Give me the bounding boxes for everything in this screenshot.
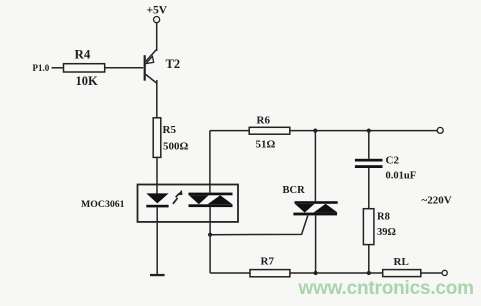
label R6 xyxy=(257,115,271,127)
value 500ohm xyxy=(163,141,189,153)
wire LED cathode to ground xyxy=(156,207,158,274)
svg-text:R4: R4 xyxy=(75,47,91,62)
value 0.01uF xyxy=(386,171,417,182)
top rail wire xyxy=(210,130,249,132)
node +5V terminal xyxy=(154,17,160,23)
svg-text:BCR: BCR xyxy=(283,185,306,196)
svg-text:500Ω: 500Ω xyxy=(163,141,189,153)
node G junction xyxy=(208,233,212,237)
junction top rail BCR xyxy=(313,129,317,133)
LED D1 xyxy=(146,193,168,207)
bottom rail wire left xyxy=(210,272,250,274)
junction top rail C2 xyxy=(367,129,371,133)
bottom rail wire right xyxy=(421,272,442,274)
svg-text:~220V: ~220V xyxy=(422,195,452,207)
svg-text:R7: R7 xyxy=(261,256,275,268)
svg-text:R6: R6 xyxy=(257,115,271,127)
svg-text:0.01uF: 0.01uF xyxy=(386,171,417,182)
junction bottom rail BCR xyxy=(314,271,318,275)
svg-text:39Ω: 39Ω xyxy=(377,227,396,238)
node P1.0 label xyxy=(33,63,50,73)
junction bottom rail R8 xyxy=(367,271,371,275)
label T2 xyxy=(166,57,181,71)
label R7 xyxy=(261,256,275,268)
wire P1.0 to R4 xyxy=(52,67,64,69)
svg-text:10K: 10K xyxy=(76,74,99,88)
resistor R7 xyxy=(250,270,290,277)
value 51ohm xyxy=(256,139,276,151)
optocoupler U1 box xyxy=(138,185,239,222)
wire triac pin4 down to node G xyxy=(209,207,211,273)
triac BCR xyxy=(293,201,337,215)
svg-text:R8: R8 xyxy=(377,212,390,223)
label MOC3061 xyxy=(81,199,125,210)
resistor R6 xyxy=(249,127,290,134)
top rail wire right xyxy=(290,130,437,132)
terminal AC top xyxy=(437,127,443,133)
label R4 xyxy=(75,47,91,62)
svg-text:RL: RL xyxy=(394,256,409,268)
wire +5V to T2 emitter xyxy=(156,23,158,51)
wire triac pin6 up to rail xyxy=(209,131,211,193)
watermark xyxy=(298,278,474,299)
svg-text:C2: C2 xyxy=(386,155,400,167)
label R5 xyxy=(163,124,177,136)
ground xyxy=(150,274,165,276)
resistor R4 xyxy=(64,64,105,72)
transistor T2 xyxy=(144,49,157,83)
wire R5 to LED anode xyxy=(156,157,158,194)
resistor RL xyxy=(383,270,421,277)
label R8 xyxy=(377,212,390,223)
wire BCR MT2 to bottom rail xyxy=(315,215,317,273)
node +5V label xyxy=(147,5,168,17)
photo-triac of U1 xyxy=(189,193,233,208)
svg-text:+5V: +5V xyxy=(147,5,168,17)
value 10K xyxy=(76,74,99,88)
label ~220V xyxy=(422,195,452,207)
value 39ohm xyxy=(377,227,396,238)
svg-text:51Ω: 51Ω xyxy=(256,139,276,151)
svg-text:T2: T2 xyxy=(166,57,181,71)
light arrow xyxy=(173,190,183,204)
resistor R5 xyxy=(153,118,161,158)
wire T2 collector to R5 xyxy=(156,80,158,118)
label BCR xyxy=(283,185,306,196)
label C2 xyxy=(386,155,400,167)
label RL xyxy=(394,256,409,268)
svg-text:P1.0: P1.0 xyxy=(33,63,50,73)
capacitor C2 xyxy=(355,131,383,209)
wire R8 to bottom rail xyxy=(368,245,370,273)
bottom rail wire mid xyxy=(290,272,383,274)
wire R4 to T2 base xyxy=(105,67,144,69)
wire BCR MT1 from rail xyxy=(314,131,316,202)
svg-text:MOC3061: MOC3061 xyxy=(81,199,125,210)
svg-text:R5: R5 xyxy=(163,124,177,136)
terminal AC bottom xyxy=(442,270,447,275)
wire gate to BCR xyxy=(210,216,308,235)
svg-text:www.cntronics.com: www.cntronics.com xyxy=(298,278,474,299)
resistor R8 xyxy=(363,209,374,245)
